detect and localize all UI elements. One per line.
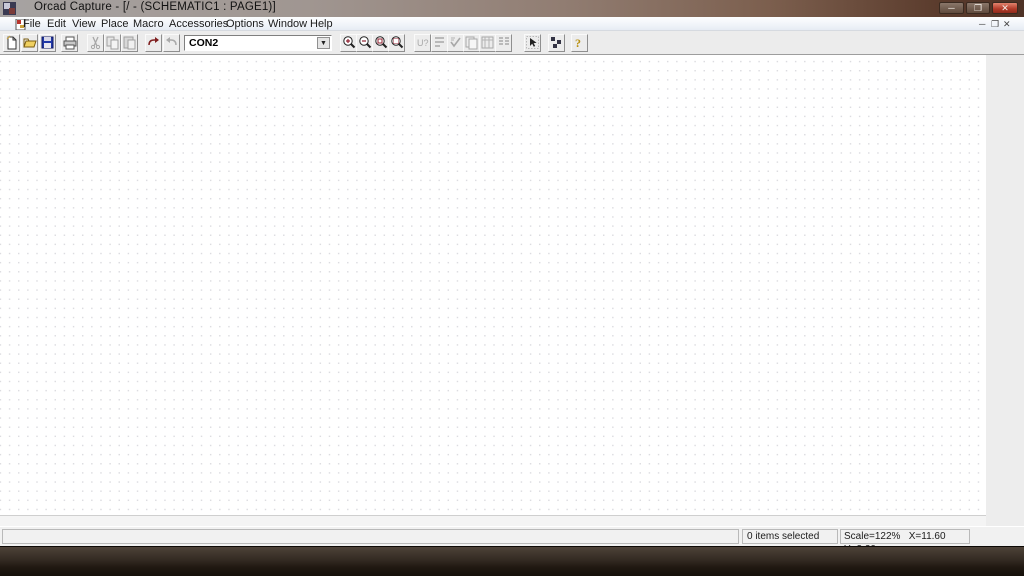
zoom all [388, 34, 405, 52]
toolbar [0, 31, 1024, 55]
combo box CON2 [184, 35, 332, 51]
title bar [0, 0, 1024, 17]
undo [145, 34, 162, 52]
horizontal scrollbar [0, 515, 986, 526]
drc gray [431, 34, 448, 52]
copy (gray) [104, 34, 121, 52]
snap pointer [524, 34, 541, 52]
taskbar [0, 546, 1024, 576]
new [3, 34, 20, 52]
svg-text:U?: U? [417, 38, 429, 48]
save [39, 34, 56, 52]
cut (gray) [87, 34, 104, 52]
annotate U? gray [414, 34, 431, 52]
hierarchy [548, 34, 565, 52]
bom gray [495, 34, 512, 52]
check gray [447, 34, 464, 52]
netlist gray [463, 34, 480, 52]
redo gray [163, 34, 180, 52]
zoom in [340, 34, 357, 52]
schematic canvas [0, 55, 986, 515]
help [571, 34, 588, 52]
zoom area [372, 34, 389, 52]
svg-text:?: ? [575, 36, 581, 50]
status bar [0, 527, 1024, 546]
xref gray [479, 34, 496, 52]
zoom out [356, 34, 373, 52]
open [21, 34, 38, 52]
right column: scrollbar + tool palette [986, 55, 1024, 526]
menu bar [0, 17, 1024, 31]
paste (gray) [121, 34, 138, 52]
print [61, 34, 78, 52]
